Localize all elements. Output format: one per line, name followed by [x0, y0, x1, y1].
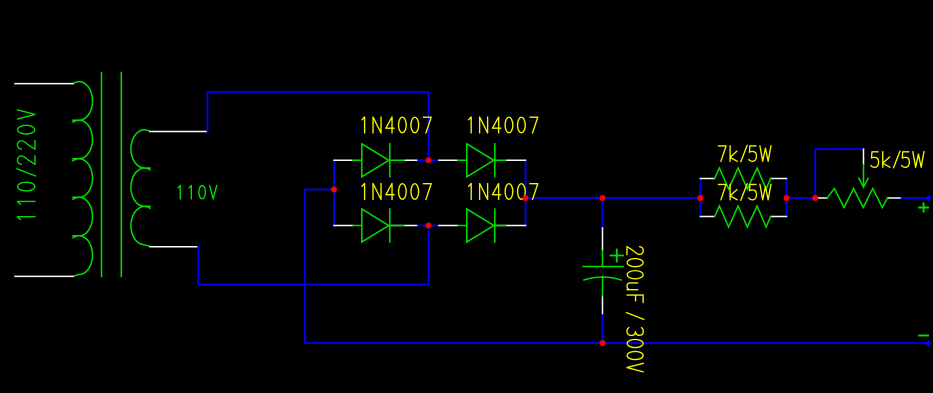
- junction node cap top: [600, 195, 606, 201]
- label 1N4007 D3: [362, 184, 431, 200]
- junction node bridge top: [426, 157, 432, 163]
- resistor R1 pin stubs: [700, 178, 786, 180]
- potentiometer arrow: [859, 165, 868, 188]
- wire bottom row blue segment: [417, 225, 440, 227]
- wire secondary top to bridge: [208, 92, 429, 160]
- label 7k/5W R1: [718, 145, 771, 161]
- potentiometer R3: [827, 165, 887, 208]
- label 5k/5W: [871, 151, 924, 168]
- resistor R2: [715, 206, 771, 227]
- pin wires bridge top row: [334, 159, 526, 161]
- junction node resistors left: [697, 195, 703, 201]
- resistor R2 pin stubs: [700, 216, 786, 218]
- label 200uF / 300V: [626, 247, 643, 372]
- label 110V: [178, 185, 217, 199]
- junction node cap bottom: [600, 340, 606, 346]
- wire bridge right vertical (node DC+): [525, 160, 527, 226]
- diode D1: [353, 144, 404, 177]
- junction node bridge bottom: [426, 223, 432, 229]
- label 1N4007 D1: [362, 117, 431, 133]
- resistor network verticals: [700, 179, 786, 217]
- label plus terminal: [919, 203, 928, 211]
- wire top row blue segment: [417, 159, 440, 161]
- diode D3: [353, 209, 404, 242]
- diode D2: [458, 144, 506, 177]
- label 1N4007 D2: [469, 117, 538, 133]
- junction node wiper tap: [812, 195, 818, 201]
- transformer core: [102, 73, 122, 277]
- transformer secondary winding: [131, 130, 150, 247]
- wire secondary bottom to bridge: [198, 226, 428, 285]
- pin stub potentiometer wiper: [863, 149, 865, 164]
- label 7k/5W R2: [718, 184, 771, 200]
- label minus terminal: [919, 335, 928, 337]
- wire bridge node to minus rail: [305, 190, 928, 344]
- pin wires bridge bottom row: [334, 225, 526, 227]
- capacitor plus sign: [611, 250, 624, 262]
- junction node bridge left: [331, 187, 337, 193]
- pin wire secondary bottom: [150, 246, 198, 248]
- transformer primary winding: [73, 82, 92, 277]
- diode D4: [458, 209, 506, 242]
- junction node resistors right: [784, 195, 790, 201]
- pin wire secondary top: [150, 131, 208, 133]
- capacitor C1 wires: [602, 198, 604, 343]
- transformer T1: [73, 73, 150, 277]
- pin wire primary bottom: [15, 275, 73, 277]
- capacitor C1: [583, 250, 623, 296]
- junction node bridge right: [523, 195, 529, 201]
- wire bridge left vertical (node AC-): [333, 160, 335, 225]
- capacitor C1 pin stubs: [602, 228, 604, 314]
- wire DC+ rail: [526, 197, 926, 199]
- terminal plus: [925, 195, 931, 201]
- potentiometer R3 pin stubs: [815, 197, 900, 199]
- label 1N4007 D4: [469, 184, 538, 200]
- label 110/220V: [17, 110, 36, 220]
- resistor R1: [715, 168, 771, 189]
- terminal minus: [925, 340, 932, 347]
- wire potentiometer wiper: [815, 149, 863, 198]
- pin wire primary top: [15, 83, 73, 85]
